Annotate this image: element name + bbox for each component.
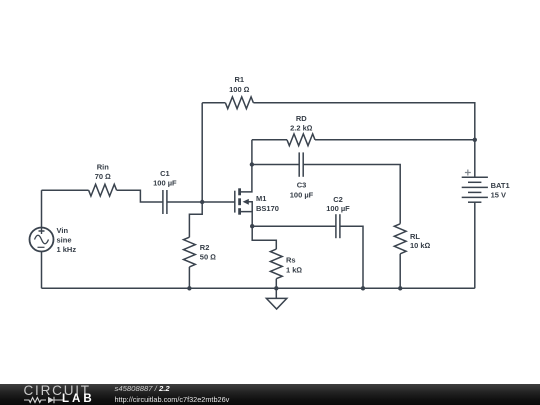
svg-text:100 µF: 100 µF [326,204,350,213]
svg-text:BS170: BS170 [256,204,279,213]
svg-text:1 kΩ: 1 kΩ [286,265,302,274]
battery BAT1 [462,140,510,288]
resistor Rs [270,249,302,279]
svg-text:10 kΩ: 10 kΩ [410,241,431,250]
svg-text:RL: RL [410,232,420,241]
wire: Rin top rail from source [42,189,89,191]
wire: gate lead [202,201,235,203]
resistor R2 [184,237,217,267]
wire: source to C2 left lead [252,225,336,227]
svg-text:M1: M1 [256,194,266,203]
voltage source Vin [30,190,77,288]
wire: RD left vertical from RD level down to C3 node [251,140,253,165]
wire: R1 right to top-right corner, down to battery junction [253,103,474,140]
node: RL / rail junction [398,286,402,290]
wire: C2 right lead down to rail [340,226,363,288]
svg-text:R1: R1 [235,75,245,84]
ground [266,288,286,309]
svg-text:15 V: 15 V [491,190,506,199]
svg-text:BAT1: BAT1 [491,181,510,190]
svg-text:Rin: Rin [97,162,110,171]
capacitor C1 [153,169,177,214]
svg-text:C2: C2 [333,195,343,204]
svg-text:50 Ω: 50 Ω [200,253,216,262]
wire: R2 bottom lead [188,267,190,288]
svg-text:sine: sine [57,235,72,244]
node: R2 / ground rail junction [187,286,191,290]
svg-text:100 µF: 100 µF [153,178,177,187]
wire: RD right lead to battery vertical [315,139,475,141]
svg-text:70 Ω: 70 Ω [95,172,111,181]
node: gate junction [200,200,204,204]
resistor RL [394,224,430,254]
capacitor C3 [290,152,314,199]
wire: top rail left vertical (gate node up to R1) [201,103,203,202]
svg-text:R2: R2 [200,243,210,252]
node: Rs / rail / ground junction [274,286,278,290]
svg-text:1 kHz: 1 kHz [57,245,77,254]
CircuitLab logo glyph (resistor + diode) [24,396,66,404]
svg-text:Rs: Rs [286,256,296,265]
capacitor C2 [326,195,350,238]
wire: R1 left lead [202,102,225,104]
wire: C3 left lead [252,164,299,166]
resistor R1 [225,75,253,109]
wire: C3 right lead to RL branch top [303,165,400,224]
node: C2 branch / rail junction [361,286,365,290]
svg-text:Vin: Vin [57,226,69,235]
wire: R2 branch jog from gate node [189,202,202,237]
resistor Rin [89,162,117,196]
wire: Rin right lead, jog down to C1 level [117,190,163,202]
wire: drain vertical down to MOSFET [240,165,252,192]
footer meta text line 1 [115,385,170,392]
wire: RD left lead [252,139,287,141]
node: source junction [250,224,254,228]
node: junction RD / battery [473,138,477,142]
footer bar [0,384,540,405]
svg-text:100 µF: 100 µF [290,190,314,199]
svg-text:C1: C1 [160,169,170,178]
wire: C1 right lead to gate node [167,201,202,203]
svg-text:C3: C3 [297,181,307,190]
svg-text:100 Ω: 100 Ω [229,85,250,94]
wire: bottom ground rail [42,287,475,289]
footer meta text line 2 [115,396,230,403]
svg-text:2.2 kΩ: 2.2 kΩ [290,124,313,133]
wire: RL bottom lead [399,254,401,288]
wire: source down-jog to Rs [252,226,276,249]
wire: Rs bottom lead [275,279,277,289]
transistor M1 (BS170 NMOS) [235,188,279,226]
svg-text:RD: RD [296,114,307,123]
resistor RD [287,114,315,146]
node: junction C3 / drain [250,162,254,166]
CircuitLab logo text [24,385,91,396]
